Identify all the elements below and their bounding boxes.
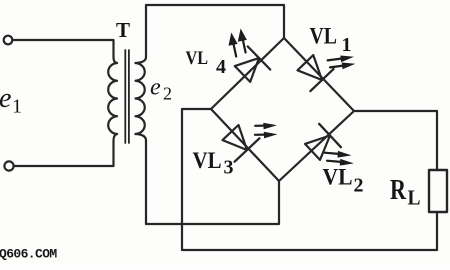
svg-text:L: L — [408, 186, 421, 210]
svg-text:4: 4 — [216, 56, 226, 78]
svg-text:Q606.COM: Q606.COM — [0, 247, 57, 262]
svg-text:VL: VL — [310, 24, 338, 49]
svg-text:1: 1 — [342, 34, 352, 56]
svg-text:VL: VL — [186, 48, 209, 69]
svg-text:1: 1 — [12, 96, 22, 118]
svg-text:R: R — [390, 174, 407, 206]
svg-text:T: T — [116, 18, 130, 42]
svg-text:2: 2 — [354, 175, 364, 197]
svg-text:VL: VL — [323, 165, 353, 190]
svg-text:e: e — [150, 75, 161, 101]
svg-text:3: 3 — [224, 157, 234, 179]
svg-text:e: e — [0, 83, 11, 114]
svg-text:VL: VL — [193, 148, 222, 173]
svg-text:2: 2 — [163, 84, 172, 104]
